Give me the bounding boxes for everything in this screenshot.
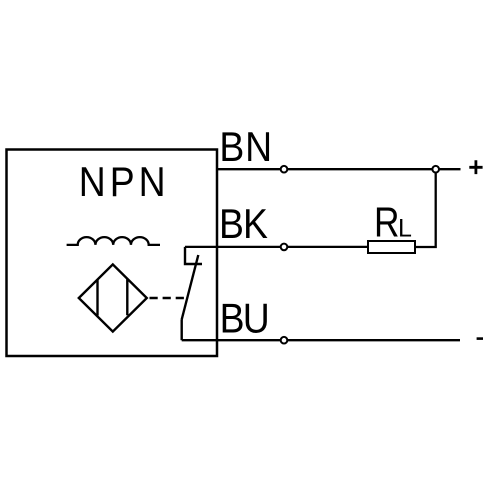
svg-text:BK: BK (219, 201, 268, 247)
switch Q1 blade (182, 255, 199, 320)
dashed actuation link (150, 297, 187, 299)
minus terminal (477, 337, 483, 340)
node junction BN/resistor (432, 166, 439, 173)
resistor RL (368, 241, 415, 253)
inductor L1 (67, 237, 160, 245)
sensor head diamond (79, 264, 147, 331)
svg-text:BU: BU (220, 296, 268, 342)
svg-text:NPN: NPN (79, 159, 170, 205)
diamond left chord (96, 280, 98, 316)
wire BU (182, 339, 460, 341)
node on BN wire (281, 166, 288, 173)
switch Q1 emitter lead (180, 320, 182, 341)
svg-text:R: R (374, 200, 399, 246)
node on BU wire (281, 337, 288, 344)
node on BK wire (281, 244, 288, 251)
diamond right chord (126, 280, 128, 316)
sensor body box (7, 150, 218, 357)
svg-text:L: L (398, 215, 412, 243)
wire BK (185, 246, 368, 248)
svg-text:BN: BN (219, 124, 272, 170)
wire from node to resistor (vertical) (415, 169, 436, 247)
switch Q1 collector lead (185, 247, 202, 264)
plus terminal (469, 160, 482, 174)
wire BN (217, 168, 461, 170)
